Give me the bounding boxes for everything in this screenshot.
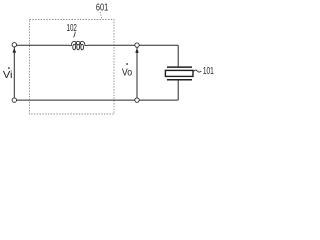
svg-text:Vi: Vi	[3, 70, 13, 81]
svg-text:101: 101	[203, 66, 214, 77]
wire (top rail, inductor to Vo node and right corner)	[88, 44, 178, 46]
wire (bottom rail)	[14, 99, 178, 101]
crystal resonator 101: top plate	[167, 66, 192, 68]
terminal circle (Vi top)	[12, 43, 16, 47]
leader line for 102	[74, 32, 76, 38]
crystal resonator 101: bottom plate	[167, 79, 192, 81]
wire (Vo phasor line, right vertical)	[136, 47, 138, 98]
label 601	[96, 3, 109, 14]
svg-text:601: 601	[96, 3, 109, 14]
crystal resonator 101: body rectangle	[165, 70, 193, 76]
svg-text:Vo: Vo	[122, 67, 132, 78]
label 101	[203, 66, 214, 77]
terminal circle (Vo top)	[135, 43, 139, 47]
leader line for 601	[100, 12, 101, 19]
arrowhead (Vi phasor, pointing up)	[13, 48, 17, 52]
label Vi (phasor dot)	[8, 67, 10, 69]
terminal circle (Vo bottom)	[135, 98, 139, 102]
label Vo	[122, 67, 132, 78]
wire (right vertical, crystal down to bottom corner)	[177, 80, 179, 100]
wire (right vertical, top corner down to crystal)	[177, 45, 179, 66]
arrowhead (Vo phasor, pointing up)	[135, 48, 139, 52]
wire (top rail, Vi terminal to inductor)	[16, 44, 68, 46]
label 102	[67, 23, 78, 34]
wavy leader for 101	[194, 70, 202, 72]
label Vi	[3, 70, 13, 81]
wire (Vi phasor line, left vertical)	[13, 47, 15, 98]
dashed block 601 (boundary box)	[30, 20, 115, 115]
label Vo (phasor dot)	[126, 63, 128, 65]
terminal circle (Vi bottom)	[12, 98, 16, 102]
inductor 102 (coil)	[68, 41, 88, 49]
